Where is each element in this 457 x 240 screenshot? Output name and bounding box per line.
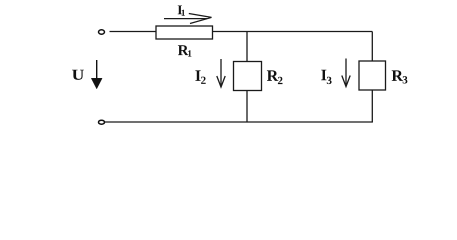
- resistor R2: [234, 62, 262, 91]
- label R3: [392, 70, 408, 83]
- resistor R3: [359, 61, 386, 90]
- label I1: [178, 6, 185, 16]
- label I2: [195, 70, 205, 84]
- label U: [72, 70, 84, 80]
- wire top-left segment: [110, 31, 157, 33]
- arrow I1 (current, right): [164, 14, 212, 24]
- label I3: [321, 70, 331, 84]
- terminal top-left: [99, 30, 105, 34]
- resistor R1: [156, 26, 213, 39]
- wire R3 branch bottom: [371, 90, 373, 122]
- arrow I2 (current, down): [217, 59, 225, 87]
- terminal bottom-left: [99, 120, 105, 124]
- wire bottom: [105, 121, 373, 123]
- wire R3 branch top: [371, 32, 373, 62]
- wire top-right segment: [213, 31, 373, 33]
- arrow I3 (current, down): [342, 59, 350, 87]
- wire R2 branch bottom: [246, 91, 248, 123]
- wire R2 branch top: [246, 32, 248, 62]
- label R1: [178, 45, 192, 56]
- label R2: [267, 70, 283, 84]
- arrow U (voltage, filled head down): [91, 60, 102, 89]
